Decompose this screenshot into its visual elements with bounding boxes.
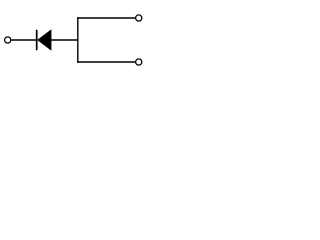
- terminal (bottom right): [136, 59, 142, 65]
- wire vertical junction bus: [77, 17, 79, 62]
- wire to bottom-right terminal: [77, 61, 135, 63]
- diode D1 triangle: [38, 30, 51, 50]
- terminal (left, anode-side input): [5, 37, 11, 43]
- wire to top-right terminal: [77, 17, 135, 19]
- terminal (top right): [136, 15, 142, 21]
- wire left terminal to diode: [11, 39, 36, 41]
- wire diode to junction: [51, 39, 78, 41]
- diode D1 cathode bar: [36, 30, 38, 50]
- background: [0, 0, 148, 80]
